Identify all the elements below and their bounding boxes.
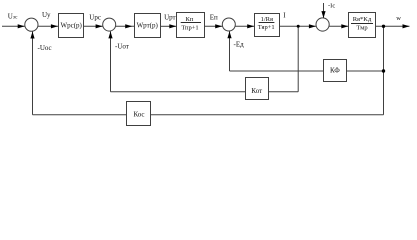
svg-text:w: w — [396, 15, 401, 22]
svg-text:Uу: Uу — [42, 11, 51, 19]
svg-text:Uзс: Uзс — [8, 12, 18, 20]
svg-text:Тмp: Тмp — [356, 25, 367, 32]
svg-text:-Iс: -Iс — [328, 3, 335, 10]
svg-text:-Eд: -Eд — [234, 40, 245, 48]
svg-text:-Uот: -Uот — [115, 42, 129, 50]
svg-text:Uрт: Uрт — [164, 13, 176, 21]
svg-text:Wрт(p): Wрт(p) — [137, 22, 159, 30]
svg-text:-Uос: -Uос — [38, 44, 52, 52]
svg-text:Rя*Kд: Rя*Kд — [353, 16, 372, 23]
svg-text:Тпp+1: Тпp+1 — [181, 24, 198, 31]
svg-text:Кот: Кот — [251, 87, 262, 95]
svg-text:Тяp+1: Тяp+1 — [258, 24, 275, 31]
svg-text:КФ: КФ — [330, 67, 340, 75]
svg-text:Кос: Кос — [133, 111, 144, 119]
svg-text:Wрс(p): Wрс(p) — [61, 22, 83, 30]
svg-text:Eп: Eп — [210, 14, 218, 22]
svg-text:Кп: Кп — [185, 16, 193, 23]
svg-text:1/Rя: 1/Rя — [261, 16, 273, 23]
svg-text:Uрс: Uрс — [89, 13, 101, 21]
